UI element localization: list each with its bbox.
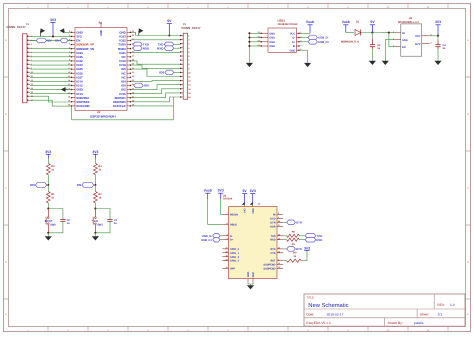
- capacitor C1 1u: [95, 209, 117, 233]
- ground (USB GND): [304, 63, 311, 67]
- svg-text:A: A: [467, 39, 469, 42]
- resistor R9 1k: [283, 252, 301, 263]
- svg-text:E: E: [5, 313, 7, 316]
- wire USB GND pin: [300, 50, 308, 63]
- svg-text:U2: U2: [97, 111, 101, 114]
- svg-text:26: 26: [132, 50, 134, 53]
- port USB_D- (U3): [202, 234, 223, 239]
- svg-text:GPIO_1: GPIO_1: [230, 252, 240, 255]
- svg-text:CTS: CTS: [271, 252, 276, 255]
- svg-text:3V3: 3V3: [92, 150, 98, 154]
- svg-text:1u: 1u: [67, 222, 70, 225]
- svg-text:2: 2: [278, 212, 279, 215]
- port EN: [77, 183, 94, 188]
- wire U4 OUT 3V3: [430, 35, 439, 37]
- svg-text:Drawn By:: Drawn By:: [388, 321, 403, 325]
- power flag 3V3 (U4 out): [435, 20, 441, 36]
- power flag 3V3 (RST pullup): [301, 246, 310, 260]
- port EN (left): [36, 38, 51, 43]
- ground (USB shell): [246, 63, 253, 67]
- svg-text:3V3: 3V3: [45, 150, 51, 154]
- svg-text:GPIO_0: GPIO_0: [230, 248, 240, 251]
- port USB_D+ (U3): [201, 237, 222, 242]
- svg-text:Date:: Date:: [306, 313, 314, 317]
- svg-text:D-: D-: [230, 235, 233, 238]
- wire 5V net: [361, 31, 395, 33]
- svg-text:USB1: USB1: [278, 19, 286, 23]
- svg-text:USB_D+: USB_D+: [201, 238, 212, 242]
- gnd flag (U2 GND pin): [60, 28, 71, 33]
- svg-text:palatis: palatis: [414, 321, 424, 325]
- ground (SW2): [45, 236, 52, 240]
- title block: [304, 294, 465, 326]
- gnd flag (U2 GND row 15): [61, 87, 68, 92]
- svg-text:REV:: REV:: [437, 303, 445, 307]
- port USB_D+ (USB): [300, 40, 330, 45]
- gnd flag (U2 right GND): [139, 28, 144, 35]
- svg-text:SUSPEND: SUSPEND: [263, 264, 275, 267]
- svg-text:27: 27: [132, 55, 134, 58]
- svg-text:D: D: [467, 261, 469, 264]
- svg-text:E: E: [467, 313, 469, 316]
- svg-text:EN: EN: [47, 39, 51, 43]
- svg-text:3V3: 3V3: [50, 18, 56, 22]
- regulator U4 SPX3819M5-L-3-3: [393, 17, 432, 56]
- svg-text:S2: S2: [257, 35, 259, 38]
- svg-text:GND: GND: [100, 30, 103, 36]
- svg-text:BOOT: BOOT: [45, 220, 53, 223]
- power flag 3V3 (U3 REGIN): [218, 189, 224, 215]
- svg-text:DTR: DTR: [296, 221, 302, 225]
- wire: [94, 232, 96, 237]
- svg-text:25: 25: [278, 237, 280, 240]
- port RXD (U3): [299, 237, 322, 242]
- svg-text:12: 12: [278, 262, 280, 265]
- svg-text:10118192-0001LF: 10118192-0001LF: [278, 23, 299, 26]
- svg-text:EN: EN: [77, 183, 81, 187]
- svg-text:BYP: BYP: [415, 43, 421, 46]
- connector USB1 10118192-0001LF: [257, 19, 302, 53]
- svg-text:VBUS: VBUS: [230, 223, 237, 226]
- power flag 5V (after D1): [370, 20, 375, 32]
- svg-text:9: 9: [278, 258, 279, 261]
- svg-text:VPP: VPP: [230, 268, 235, 271]
- svg-text:18: 18: [225, 258, 227, 261]
- port IO0: [30, 183, 47, 188]
- svg-text:CONN_01X17: CONN_01X17: [181, 26, 201, 30]
- svg-text:RXD: RXD: [157, 46, 164, 50]
- svg-text:RTS: RTS: [271, 248, 276, 251]
- svg-text:TITLE:: TITLE:: [306, 297, 314, 300]
- svg-text:IO0: IO0: [144, 84, 149, 88]
- power flag Vusb (at D1): [342, 20, 354, 32]
- svg-text:19: 19: [225, 254, 227, 257]
- svg-text:A: A: [5, 39, 7, 42]
- svg-text:S1: S1: [257, 31, 259, 34]
- port DTR: [283, 220, 302, 225]
- svg-text:SCS/CMD: SCS/CMD: [76, 104, 89, 108]
- power flag 5V (U3 VIO): [242, 189, 248, 205]
- port EN (at U2): [55, 38, 68, 43]
- gnd flag (P1 side): [41, 28, 46, 36]
- wire USB shell GND: [248, 32, 260, 63]
- port TXD (at P2): [157, 42, 180, 47]
- svg-text:RST: RST: [271, 260, 276, 263]
- port RXD (at P2): [157, 46, 180, 51]
- capacitor C4 1u: [435, 36, 446, 61]
- svg-text:21: 21: [225, 247, 227, 250]
- svg-text:5: 5: [300, 48, 301, 51]
- port USB_D- (USB): [300, 35, 329, 40]
- svg-text:C: C: [5, 187, 7, 190]
- svg-text:Vusb: Vusb: [204, 189, 212, 193]
- wire: [47, 175, 49, 186]
- wire bus P1 to U2 left pins: [30, 36, 71, 106]
- port RTS: [283, 247, 302, 252]
- ground (U4): [382, 61, 389, 65]
- port RXD (at U2): [133, 46, 150, 51]
- ground (C4): [434, 61, 441, 65]
- svg-text:27: 27: [278, 224, 280, 227]
- ground (SW1): [92, 236, 99, 240]
- connector P2 CONN_01X17: [180, 23, 201, 99]
- svg-text:26: 26: [278, 233, 280, 236]
- svg-text:U4: U4: [409, 17, 413, 20]
- capacitor C3 1u: [370, 33, 381, 61]
- IC U3 CP2104: [222, 194, 283, 282]
- svg-text:GND: GND: [269, 45, 275, 48]
- svg-text:VIO: VIO: [244, 208, 247, 212]
- resistor R5: [283, 238, 299, 246]
- svg-text:31: 31: [132, 71, 134, 74]
- svg-text:GPIO_3: GPIO_3: [230, 260, 240, 263]
- svg-text:D1: D1: [356, 21, 360, 24]
- module U2 ESP32-WROVER-I: [68, 22, 135, 119]
- svg-text:5V: 5V: [243, 189, 248, 193]
- svg-text:1u: 1u: [442, 47, 445, 50]
- svg-text:OUT: OUT: [415, 35, 421, 38]
- port TXD (U3): [299, 234, 322, 239]
- svg-text:DTR: DTR: [270, 221, 275, 224]
- svg-text:GND: GND: [269, 37, 275, 40]
- switch SW1 EN: [92, 209, 104, 233]
- svg-text:IO0: IO0: [30, 183, 35, 187]
- power flag 3V3 (top left): [50, 18, 56, 38]
- svg-text:CONN_01X17: CONN_01X17: [7, 25, 27, 29]
- svg-text:D+: D+: [230, 239, 234, 242]
- port TXD (at U2): [133, 42, 150, 47]
- svg-text:3: 3: [227, 237, 228, 240]
- wire U4 GND: [385, 40, 395, 61]
- svg-text:MBR0520LT1-G: MBR0520LT1-G: [341, 40, 359, 43]
- switch SW2 BOOT: [45, 209, 57, 233]
- resistor R1 1k: [46, 185, 55, 203]
- power flag 3V3 (SW1): [92, 150, 98, 164]
- ground (U3): [247, 285, 254, 289]
- svg-text:SW2: SW2: [50, 224, 56, 227]
- svg-text:2: 2: [300, 35, 301, 38]
- svg-text:B: B: [5, 113, 7, 116]
- svg-text:Sheet:: Sheet:: [420, 313, 430, 317]
- wire U3 GND: [248, 283, 253, 286]
- svg-text:RTS: RTS: [296, 247, 302, 251]
- svg-text:VDD: VDD: [252, 208, 255, 213]
- svg-text:GND: GND: [402, 39, 408, 42]
- svg-text:GND: GND: [269, 32, 275, 35]
- wire EN net: [30, 39, 71, 41]
- wire: [47, 203, 49, 210]
- svg-text:18: 18: [68, 95, 70, 98]
- svg-text:5: 5: [69, 42, 70, 45]
- svg-text:1u: 1u: [377, 47, 380, 50]
- svg-text:ID: ID: [293, 45, 296, 48]
- svg-text:1: 1: [300, 31, 301, 34]
- power flag 5V (P2): [167, 19, 172, 36]
- power flag 3V3 (SW2): [45, 150, 51, 164]
- svg-text:D-: D-: [293, 37, 296, 40]
- svg-text:B: B: [467, 113, 469, 116]
- svg-text:5V: 5V: [370, 20, 375, 24]
- svg-text:1/1: 1/1: [438, 313, 443, 317]
- svg-text:38: 38: [98, 22, 101, 24]
- svg-text:GPIO_2: GPIO_2: [230, 256, 240, 259]
- resistor R2 1k: [94, 185, 103, 203]
- svg-text:REGIN: REGIN: [230, 213, 238, 216]
- wire: [94, 203, 96, 210]
- connector P1 CONN_01X17: [7, 23, 34, 103]
- svg-text:VCC: VCC: [290, 32, 296, 35]
- svg-text:3V3: 3V3: [435, 20, 441, 24]
- svg-text:DSR: DSR: [270, 225, 275, 228]
- svg-text:EN: EN: [402, 46, 406, 49]
- svg-text:RXD: RXD: [143, 46, 150, 50]
- svg-text:PAD: PAD: [252, 272, 255, 277]
- svg-text:S3: S3: [257, 40, 259, 43]
- resistor R4 1k: [94, 163, 103, 174]
- svg-text:3V3: 3V3: [250, 189, 256, 193]
- svg-text:32: 32: [132, 75, 134, 78]
- svg-text:8: 8: [227, 222, 228, 225]
- resistor R3 1k: [46, 163, 55, 174]
- svg-text:Vusb: Vusb: [306, 20, 314, 24]
- svg-text:D: D: [5, 261, 7, 264]
- svg-text:USB_D+: USB_D+: [318, 40, 329, 44]
- wire: [94, 175, 96, 186]
- svg-text:DCD: DCD: [270, 217, 276, 220]
- svg-text:2018-02-17: 2018-02-17: [327, 313, 344, 317]
- power flag Vusb (U3): [204, 189, 223, 225]
- svg-text:RXD: RXD: [270, 239, 275, 242]
- svg-text:3: 3: [300, 40, 301, 43]
- svg-text:1u: 1u: [114, 222, 117, 225]
- svg-text:CP2104: CP2104: [223, 198, 233, 201]
- svg-text:SUSPEND: SUSPEND: [263, 268, 275, 271]
- svg-text:RXD: RXD: [316, 238, 322, 242]
- power flag Vusb (USB VCC): [300, 20, 314, 33]
- svg-text:IO0: IO0: [159, 71, 164, 75]
- resistor R6: [283, 230, 299, 237]
- svg-text:3V3: 3V3: [218, 189, 224, 193]
- svg-text:GND: GND: [247, 272, 250, 278]
- ground (C3): [369, 61, 376, 65]
- svg-text:D+: D+: [292, 41, 296, 44]
- capacitor C2 1u: [48, 209, 70, 233]
- svg-text:GND: GND: [269, 41, 275, 44]
- port IO0 (at P2): [159, 70, 180, 75]
- svg-text:15: 15: [278, 266, 280, 269]
- svg-text:26: 26: [258, 202, 260, 205]
- wire bus U2 right pins to P2: [131, 32, 180, 106]
- svg-text:11: 11: [226, 266, 228, 269]
- svg-text:ESP32-WROVER-I: ESP32-WROVER-I: [90, 115, 116, 119]
- port IO0 (at U2): [134, 83, 149, 88]
- svg-text:3V3: 3V3: [304, 246, 310, 250]
- svg-text:23: 23: [278, 250, 280, 253]
- svg-text:1: 1: [278, 216, 279, 219]
- wire under-module route: [72, 106, 174, 120]
- power flag 3V3 (U3 VDD): [250, 189, 256, 205]
- svg-text:28: 28: [278, 220, 280, 223]
- svg-text:EasyEDA V5.1.3: EasyEDA V5.1.3: [306, 321, 331, 325]
- svg-text:EN: EN: [94, 220, 98, 223]
- diode D1 MBR0520LT1-G: [341, 21, 361, 44]
- svg-text:5V: 5V: [167, 19, 172, 23]
- svg-text:20: 20: [225, 250, 227, 253]
- svg-text:1.0: 1.0: [450, 303, 455, 307]
- svg-text:C: C: [467, 187, 469, 190]
- wire: [47, 232, 49, 237]
- svg-text:GND: GND: [290, 49, 296, 52]
- svg-text:RI: RI: [273, 213, 276, 216]
- svg-text:22: 22: [132, 34, 134, 37]
- svg-text:TXD: TXD: [271, 235, 276, 238]
- svg-text:Vusb: Vusb: [342, 20, 350, 24]
- svg-text:New Schematic: New Schematic: [308, 302, 348, 309]
- svg-text:SCK/CLK: SCK/CLK: [113, 104, 127, 108]
- svg-text:EN: EN: [55, 39, 59, 43]
- svg-text:7: 7: [227, 212, 228, 215]
- svg-text:IN: IN: [402, 32, 405, 35]
- svg-text:SW1: SW1: [97, 224, 103, 227]
- wire U4 EN tie: [389, 33, 395, 47]
